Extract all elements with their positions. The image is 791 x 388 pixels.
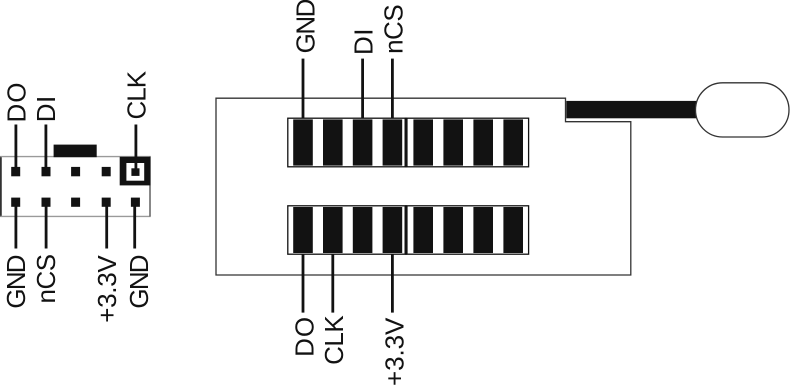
wire DI to socket top contact 3 <box>361 59 364 134</box>
svg-text:CLK: CLK <box>121 70 151 119</box>
pin GND (bottom row 5) <box>131 198 140 207</box>
connector J1 body outline <box>0 156 151 217</box>
pin GND (bottom row 1) <box>11 198 20 207</box>
polarization tab <box>54 145 97 158</box>
pin nCS (bottom row 2) <box>42 198 51 207</box>
wire GND2 from header pin <box>133 202 136 249</box>
pin CLK (top row 5) <box>131 168 139 176</box>
pin DI (top row 2) <box>42 167 51 176</box>
wire DI to header pin <box>45 125 48 172</box>
pin bottom row 3 <box>71 198 80 207</box>
wire GND to socket top contact 1 <box>302 59 305 134</box>
wire CLK from socket bottom contact 2 <box>331 240 334 313</box>
socket top contact block right <box>405 118 529 167</box>
svg-text:GND: GND <box>124 255 154 308</box>
pin 1 marker frame <box>120 157 151 186</box>
wire DO to header pin <box>15 125 18 172</box>
socket top contact block left <box>288 118 406 167</box>
svg-text:DO: DO <box>2 82 32 123</box>
wire nCS to socket top contact 4 <box>391 59 394 134</box>
lever arm <box>566 101 700 118</box>
socket bottom contact block left <box>288 206 406 254</box>
pin DO (top row 1) <box>11 167 20 176</box>
lever handle knob <box>696 83 790 137</box>
svg-text:DO: DO <box>289 316 319 357</box>
svg-text:nCS: nCS <box>31 254 61 303</box>
pin top row 3 <box>71 167 80 176</box>
wire +3.3V from header pin <box>105 202 108 249</box>
svg-text:+3.3V: +3.3V <box>379 317 409 386</box>
svg-text:CLK: CLK <box>319 315 349 365</box>
wire GND1 from header pin <box>15 202 18 249</box>
svg-text:DI: DI <box>349 28 379 55</box>
svg-text:GND: GND <box>1 255 31 308</box>
ZIF socket body outline <box>216 98 631 275</box>
svg-text:+3.3V: +3.3V <box>92 255 122 323</box>
socket bottom contact block right <box>405 206 529 254</box>
pin +3.3V (bottom row 4) <box>102 198 111 207</box>
svg-text:GND: GND <box>291 0 321 53</box>
wire CLK to header pin <box>135 125 138 172</box>
wire nCS from header pin <box>45 202 48 249</box>
pin top row 4 <box>102 167 111 176</box>
wire +3.3V from socket bottom contact 4 <box>391 240 394 313</box>
svg-text:DI: DI <box>31 95 61 122</box>
wire DO from socket bottom contact 1 <box>302 240 305 313</box>
svg-text:nCS: nCS <box>379 5 409 54</box>
